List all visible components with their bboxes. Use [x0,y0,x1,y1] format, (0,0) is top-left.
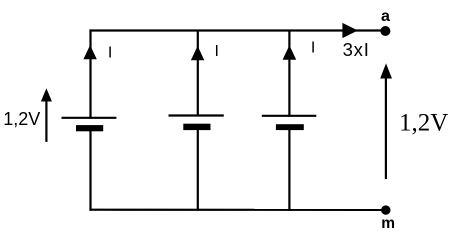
svg-text:3xI: 3xI [343,39,370,60]
svg-text:I: I [311,40,315,57]
svg-text:I: I [215,43,219,60]
svg-text:a: a [381,8,390,25]
svg-text:m: m [381,215,395,232]
svg-text:1,2V: 1,2V [3,109,40,129]
svg-text:1,2V: 1,2V [399,110,448,137]
svg-text:I: I [108,45,112,62]
